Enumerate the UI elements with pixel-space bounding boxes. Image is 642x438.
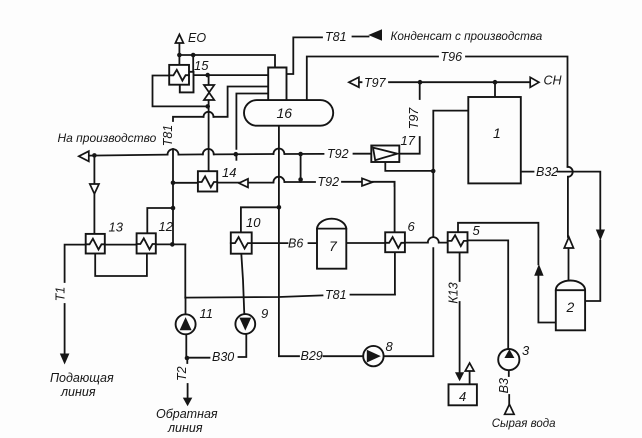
svg-text:Т97: Т97 [407, 107, 421, 130]
svg-text:Т97: Т97 [364, 76, 387, 90]
svg-text:Подающая: Подающая [50, 371, 114, 385]
svg-text:Т1: Т1 [53, 287, 67, 302]
svg-text:В29: В29 [301, 349, 323, 363]
svg-text:Т81: Т81 [325, 30, 347, 44]
svg-text:8: 8 [386, 339, 394, 354]
svg-text:СН: СН [544, 74, 563, 88]
svg-text:линия: линия [60, 385, 96, 399]
svg-text:На производство: На производство [58, 131, 157, 145]
svg-text:2: 2 [566, 299, 575, 315]
svg-text:4: 4 [459, 389, 466, 404]
svg-text:7: 7 [329, 238, 338, 254]
svg-text:14: 14 [222, 165, 236, 180]
svg-text:5: 5 [473, 223, 481, 238]
svg-text:В6: В6 [288, 237, 303, 251]
svg-text:К13: К13 [446, 282, 460, 303]
svg-text:11: 11 [200, 306, 214, 321]
svg-text:Т2: Т2 [175, 366, 189, 381]
svg-text:9: 9 [261, 306, 268, 321]
svg-text:10: 10 [246, 215, 261, 230]
svg-text:Т96: Т96 [441, 50, 463, 64]
svg-text:Т81: Т81 [161, 125, 175, 147]
svg-text:В30: В30 [212, 350, 234, 364]
svg-text:линия: линия [167, 421, 203, 435]
svg-text:12: 12 [159, 219, 174, 234]
svg-text:16: 16 [277, 105, 293, 121]
svg-text:1: 1 [493, 125, 501, 141]
svg-text:15: 15 [194, 58, 209, 73]
svg-text:Т81: Т81 [325, 288, 347, 302]
svg-text:В3: В3 [497, 378, 511, 393]
svg-text:Т92: Т92 [318, 175, 340, 189]
svg-text:Конденсат с производства: Конденсат с производства [391, 30, 543, 43]
svg-text:Обратная: Обратная [156, 407, 218, 421]
svg-text:13: 13 [109, 220, 124, 235]
svg-text:17: 17 [401, 133, 416, 148]
svg-text:Сырая вода: Сырая вода [492, 418, 556, 430]
svg-text:В32: В32 [536, 165, 558, 179]
svg-text:ЕО: ЕО [188, 31, 206, 45]
svg-text:Т92: Т92 [327, 147, 349, 161]
svg-text:3: 3 [522, 343, 530, 358]
svg-text:6: 6 [408, 219, 416, 234]
